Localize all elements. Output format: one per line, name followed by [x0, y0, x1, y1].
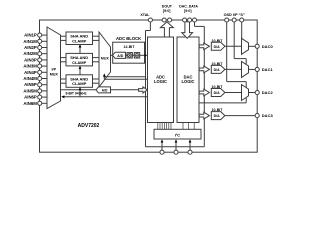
svg-text:DAC0: DAC0 [262, 44, 274, 49]
svg-text:AIN5M: AIN5M [23, 88, 37, 93]
svg-text:AIN2P: AIN2P [24, 45, 37, 50]
svg-text:D/A: D/A [214, 114, 221, 118]
svg-text:[9:0]: [9:0] [163, 9, 171, 13]
svg-text:XTAL: XTAL [140, 13, 150, 17]
svg-text:D/A: D/A [214, 91, 221, 95]
svg-text:I²C: I²C [175, 133, 180, 138]
svg-text:D/A: D/A [214, 68, 221, 72]
svg-text:AIN3P: AIN3P [24, 57, 37, 62]
svg-text:A/D: A/D [117, 54, 124, 58]
svg-text:LOGIC: LOGIC [154, 79, 167, 84]
svg-text:DAC3: DAC3 [262, 113, 274, 118]
svg-text:ADV7202: ADV7202 [78, 123, 100, 129]
svg-text:DAC2: DAC2 [262, 90, 274, 95]
svg-text:12-BIT: 12-BIT [124, 45, 136, 49]
svg-text:AIN1M: AIN1M [23, 39, 37, 44]
svg-text:D/A: D/A [214, 45, 221, 49]
svg-text:I/P: I/P [52, 68, 57, 72]
svg-text:CLAMP: CLAMP [72, 60, 87, 65]
svg-text:LOGIC: LOGIC [182, 79, 195, 84]
svg-text:CLAMP: CLAMP [72, 38, 87, 43]
svg-text:AIN4M: AIN4M [23, 76, 37, 81]
svg-text:MUX: MUX [101, 56, 109, 60]
svg-text:8-BIT 943kHz: 8-BIT 943kHz [65, 92, 86, 96]
svg-text:AIN5P: AIN5P [24, 82, 37, 87]
svg-text:CLAMP: CLAMP [72, 81, 87, 86]
svg-text:AIN6M: AIN6M [23, 101, 37, 106]
svg-text:ADC BLOCK: ADC BLOCK [116, 36, 141, 41]
svg-text:AIN6P: AIN6P [24, 95, 37, 100]
svg-text:AIN2M: AIN2M [23, 51, 37, 56]
svg-text:[9:0]: [9:0] [184, 9, 192, 13]
svg-text:A/D: A/D [102, 88, 108, 92]
svg-text:DAC1: DAC1 [262, 67, 274, 72]
svg-text:OSD I/P “S”: OSD I/P “S” [224, 13, 245, 17]
svg-text:AIN4P: AIN4P [24, 70, 37, 75]
svg-text:AIN3M: AIN3M [23, 64, 37, 69]
svg-text:MUX: MUX [50, 72, 59, 76]
svg-text:AIN1P: AIN1P [24, 33, 37, 38]
